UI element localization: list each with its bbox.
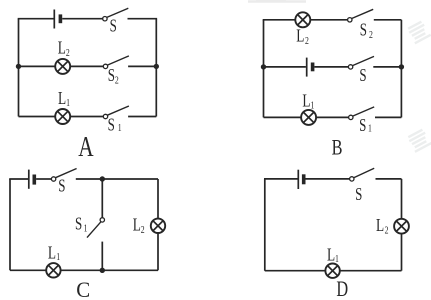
svg-text:L: L bbox=[58, 89, 66, 108]
svg-text:D: D bbox=[336, 278, 348, 300]
wire A right vertical bbox=[155, 19, 157, 117]
battery A (cell) bbox=[54, 10, 60, 29]
svg-text:2: 2 bbox=[141, 224, 145, 235]
svg-text:S: S bbox=[360, 21, 367, 40]
label S1 (circuit B) bbox=[359, 116, 372, 135]
lamp L1 (circuit C) bbox=[46, 263, 60, 277]
svg-text:2: 2 bbox=[66, 47, 70, 58]
svg-text:1: 1 bbox=[335, 253, 339, 264]
wire A middle rail right segment bbox=[128, 65, 156, 67]
wire C middle branch lower bbox=[101, 242, 103, 271]
battery C (cell) bbox=[29, 170, 35, 189]
svg-text:B: B bbox=[332, 136, 343, 160]
lamp L2 (circuit B) bbox=[295, 12, 310, 27]
svg-text:L: L bbox=[327, 246, 335, 265]
wire B top rail right segment bbox=[374, 19, 402, 21]
svg-text:S: S bbox=[359, 66, 366, 85]
label L2 (circuit B) bbox=[296, 27, 309, 46]
svg-text:L: L bbox=[133, 216, 141, 235]
node C-bottom junction bbox=[100, 268, 105, 273]
wire A top rail middle segment bbox=[62, 18, 102, 20]
wire C right vertical lower bbox=[157, 233, 159, 270]
label L2 (circuit A) bbox=[58, 39, 70, 59]
svg-text:1: 1 bbox=[311, 100, 315, 111]
svg-text:2: 2 bbox=[385, 224, 389, 235]
wire A bottom rail mid segment bbox=[70, 116, 103, 118]
wire C left vertical bbox=[9, 179, 11, 270]
svg-text:S: S bbox=[359, 116, 366, 135]
svg-text:S: S bbox=[110, 17, 117, 36]
svg-text:A: A bbox=[78, 132, 93, 162]
svg-text:L: L bbox=[302, 92, 310, 111]
wire B bottom rail right segment bbox=[375, 116, 401, 118]
lamp L2 (circuit D) bbox=[394, 219, 409, 234]
svg-text:1: 1 bbox=[118, 122, 122, 133]
svg-text:2: 2 bbox=[115, 74, 119, 85]
svg-text:S: S bbox=[58, 177, 65, 196]
switch S (circuit B) bbox=[348, 56, 374, 69]
wire C middle branch upper bbox=[101, 179, 103, 218]
svg-text:C: C bbox=[76, 277, 90, 300]
wire D bottom rail right segment bbox=[340, 270, 402, 272]
battery B (cell) bbox=[307, 58, 313, 77]
node A-left junction bbox=[16, 64, 21, 69]
svg-text:S: S bbox=[355, 185, 362, 204]
node B-right junction bbox=[399, 64, 404, 69]
wire A bottom rail right segment bbox=[128, 116, 156, 118]
label L2 (circuit C) bbox=[133, 216, 145, 236]
wire A top rail right segment bbox=[128, 18, 158, 20]
svg-text:S: S bbox=[108, 116, 115, 135]
node A-right junction bbox=[154, 64, 159, 69]
watermark faint marks (decorative) bbox=[248, 0, 431, 152]
wire C top rail left segment bbox=[9, 178, 28, 180]
wire B middle rail mid segment bbox=[314, 66, 348, 68]
wire A left vertical bbox=[18, 19, 20, 117]
wire B top rail mid segment bbox=[310, 19, 347, 21]
lamp L2 (circuit C) bbox=[151, 219, 165, 233]
wire D top rail right segment bbox=[376, 178, 402, 180]
wire D right vertical lower bbox=[401, 234, 403, 271]
lamp L1 (circuit A) bbox=[55, 109, 70, 124]
wire C top rail right segment bbox=[76, 178, 158, 180]
wire B bottom rail left segment bbox=[264, 116, 302, 118]
wire A middle rail mid segment bbox=[70, 65, 103, 67]
label S2 (circuit B) bbox=[360, 21, 373, 41]
wire B bottom rail mid segment bbox=[316, 116, 349, 118]
svg-text:1: 1 bbox=[66, 97, 70, 108]
wire D top rail mid segment bbox=[306, 178, 350, 180]
node C-top junction bbox=[100, 176, 105, 181]
switch S1 (circuit B) bbox=[349, 107, 375, 120]
lamp L2 (circuit A) bbox=[55, 59, 70, 74]
wire C top rail mid segment bbox=[36, 178, 51, 180]
wire B left vertical bbox=[263, 20, 265, 118]
label L1 (circuit D) bbox=[327, 246, 339, 265]
wire A bottom rail left segment bbox=[19, 116, 56, 118]
label S1 (circuit C) bbox=[75, 215, 88, 234]
wire D bottom rail left segment bbox=[265, 270, 326, 272]
wire D right vertical upper bbox=[401, 179, 403, 219]
svg-text:L: L bbox=[58, 39, 66, 58]
svg-text:1: 1 bbox=[84, 222, 88, 233]
svg-text:S: S bbox=[108, 66, 115, 85]
wire B middle rail left segment bbox=[264, 66, 306, 68]
wire C bottom rail right segment bbox=[61, 269, 158, 271]
svg-text:1: 1 bbox=[368, 122, 372, 133]
label S1 (circuit A) bbox=[108, 116, 122, 135]
switch S1 (circuit C, vertical) bbox=[87, 218, 105, 238]
switch S1 (circuit A) bbox=[103, 106, 129, 119]
battery D (cell) bbox=[298, 170, 303, 189]
wire B top rail left segment bbox=[263, 19, 296, 21]
svg-text:L: L bbox=[376, 216, 384, 235]
wire D left vertical bbox=[264, 179, 266, 271]
svg-text:2: 2 bbox=[305, 35, 309, 46]
svg-text:L: L bbox=[296, 27, 304, 46]
label L1 (circuit B) bbox=[302, 92, 314, 111]
wire A top rail left segment bbox=[18, 18, 54, 20]
lamp L1 (circuit B) bbox=[301, 110, 316, 125]
wire B right vertical bbox=[400, 20, 402, 118]
label L1 (circuit A) bbox=[58, 89, 70, 108]
svg-text:2: 2 bbox=[369, 29, 373, 40]
label L2 (circuit D) bbox=[376, 216, 389, 236]
node B-left junction bbox=[261, 64, 266, 69]
svg-text:L: L bbox=[48, 244, 56, 263]
wire A middle rail left segment bbox=[19, 65, 56, 67]
switch S (circuit D) bbox=[350, 168, 375, 181]
wire C right vertical upper bbox=[157, 179, 159, 219]
wire D top rail left segment bbox=[264, 178, 298, 180]
wire C bottom rail left segment bbox=[10, 269, 46, 271]
switch S2 (circuit A) bbox=[103, 56, 129, 69]
switch S (circuit A) bbox=[103, 8, 129, 21]
switch S2 (circuit B) bbox=[348, 9, 374, 22]
svg-text:S: S bbox=[75, 215, 82, 234]
svg-text:1: 1 bbox=[56, 251, 60, 262]
label S2 (circuit A) bbox=[108, 66, 119, 86]
label L1 (circuit C) bbox=[48, 244, 61, 263]
lamp L1 (circuit D) bbox=[325, 264, 339, 278]
switch S (circuit C) bbox=[51, 169, 76, 182]
wire B middle rail right segment bbox=[373, 66, 401, 68]
